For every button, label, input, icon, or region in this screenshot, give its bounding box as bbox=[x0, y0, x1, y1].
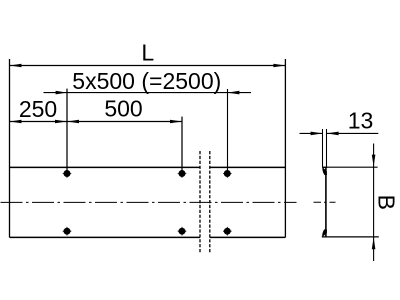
side profile bottom hook bbox=[322, 229, 327, 237]
dimension line 250 / 500 bbox=[10, 121, 183, 123]
side profile bottom edge + B bottom extension line bbox=[322, 236, 379, 238]
hole B2 bbox=[178, 227, 187, 236]
extension line x=227.5 bbox=[227, 89, 229, 170]
svg-text:250: 250 bbox=[19, 96, 57, 122]
extension line x=182 bbox=[181, 117, 183, 171]
svg-text:500: 500 bbox=[104, 96, 142, 122]
svg-text:13: 13 bbox=[348, 108, 374, 134]
hole A1 bbox=[63, 169, 72, 178]
plate right edge + L extension line bbox=[284, 59, 286, 237]
plate left edge + L extension line bbox=[9, 59, 11, 237]
extension line x=67 bbox=[66, 89, 68, 171]
dimension 13 bbox=[300, 132, 379, 134]
hole A2 bbox=[178, 169, 187, 178]
hole B3 bbox=[223, 227, 232, 236]
side view: 13 extension lines bbox=[323, 129, 327, 167]
B top extension line bbox=[322, 166, 377, 168]
svg-text:B: B bbox=[373, 195, 399, 210]
side profile top edge bbox=[322, 166, 327, 168]
dimension line L bbox=[10, 65, 286, 67]
plate bottom edge bbox=[10, 236, 286, 238]
side profile top hook bbox=[322, 167, 327, 175]
svg-text:5x500 (=2500): 5x500 (=2500) bbox=[72, 68, 221, 94]
hole A3 bbox=[223, 169, 232, 178]
side profile web bbox=[325, 167, 327, 237]
dimension line B bbox=[373, 144, 375, 262]
svg-text:L: L bbox=[141, 40, 154, 66]
break line right bbox=[209, 151, 211, 253]
dimension line 5x500 bbox=[44, 92, 252, 94]
plate top edge bbox=[10, 166, 286, 168]
hole B1 bbox=[63, 227, 72, 236]
side view centerline bbox=[314, 201, 336, 203]
break line left bbox=[199, 151, 201, 253]
centerline main view bbox=[1, 201, 297, 203]
